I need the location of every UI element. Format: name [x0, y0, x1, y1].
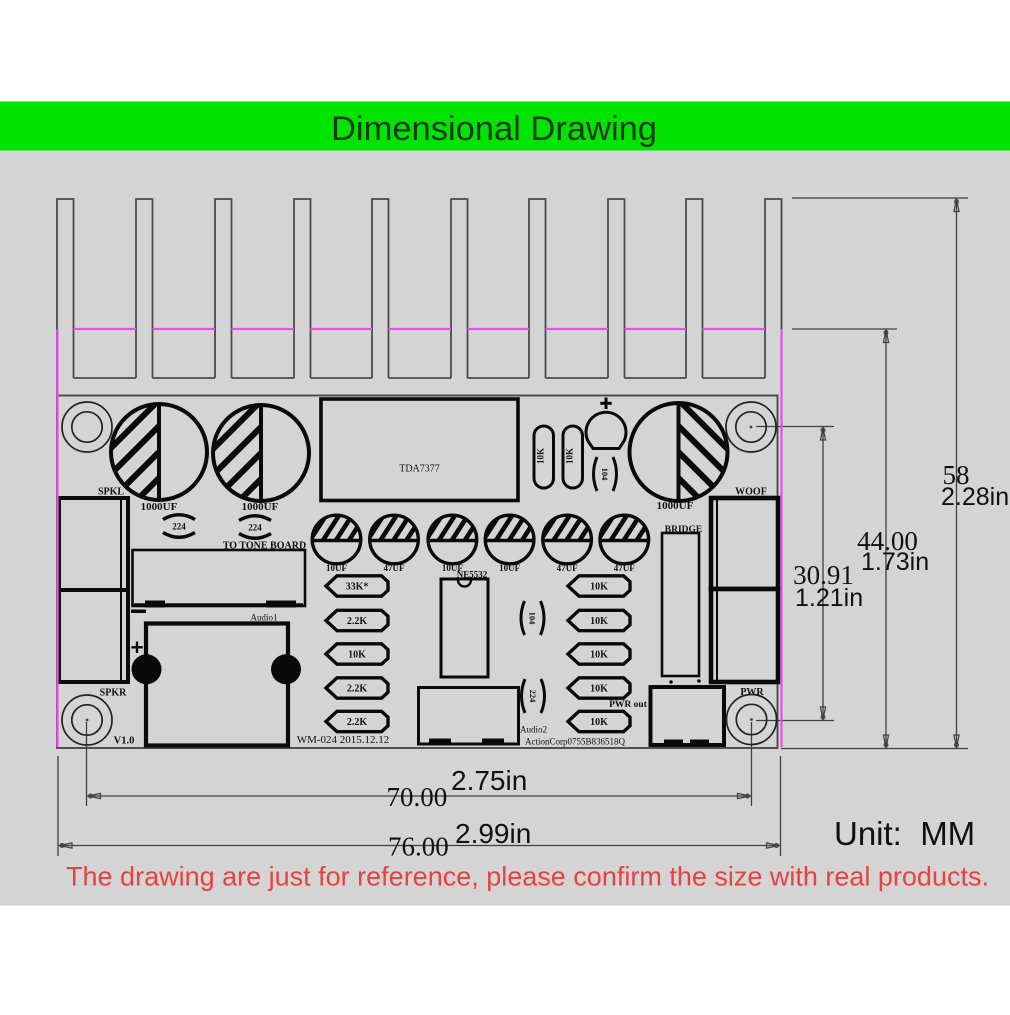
- svg-text:1.21in: 1.21in: [795, 584, 863, 612]
- svg-text:10K: 10K: [565, 448, 575, 464]
- svg-text:10K: 10K: [590, 717, 608, 728]
- svg-text:10UF: 10UF: [499, 563, 520, 573]
- svg-text:76.00: 76.00: [388, 832, 449, 862]
- svg-text:70.00: 70.00: [387, 782, 448, 812]
- svg-text:TO TONE BOARD: TO TONE BOARD: [223, 541, 306, 552]
- svg-text:2.2K: 2.2K: [347, 717, 368, 728]
- svg-text:10K: 10K: [536, 448, 546, 464]
- svg-text:WOOF: WOOF: [735, 487, 767, 498]
- svg-text:NE5532: NE5532: [457, 570, 488, 580]
- svg-text:1000UF: 1000UF: [141, 501, 178, 513]
- svg-text:1000UF: 1000UF: [657, 500, 694, 512]
- svg-text:224: 224: [528, 690, 538, 704]
- svg-text:ActionCorp0755B836518Q: ActionCorp0755B836518Q: [525, 737, 625, 747]
- svg-text:2.99in: 2.99in: [455, 818, 531, 849]
- svg-text:PWR: PWR: [740, 687, 764, 698]
- svg-text:10K: 10K: [590, 582, 608, 593]
- svg-text:104: 104: [528, 612, 538, 626]
- svg-text:WM-024 2015.12.12: WM-024 2015.12.12: [297, 734, 390, 746]
- svg-text:47UF: 47UF: [384, 563, 405, 573]
- svg-text:2.28in: 2.28in: [941, 483, 1009, 511]
- svg-text:V1.0: V1.0: [114, 736, 135, 747]
- svg-text:47UF: 47UF: [557, 563, 578, 573]
- svg-text:Unit: MM: Unit: MM: [834, 815, 975, 852]
- svg-text:1000UF: 1000UF: [242, 501, 279, 513]
- svg-text:SPKL: SPKL: [98, 487, 124, 498]
- svg-text:2.2K: 2.2K: [347, 616, 368, 627]
- svg-text:10K: 10K: [590, 616, 608, 627]
- svg-text:2.2K: 2.2K: [347, 684, 368, 695]
- svg-text:2.75in: 2.75in: [451, 765, 527, 796]
- svg-text:SPKR: SPKR: [100, 688, 127, 699]
- svg-text:10K: 10K: [590, 684, 608, 695]
- svg-text:10UF: 10UF: [326, 563, 347, 573]
- svg-text:33K*: 33K*: [346, 582, 369, 593]
- svg-text:224: 224: [248, 523, 262, 533]
- svg-text:10K: 10K: [590, 650, 608, 661]
- svg-text:104: 104: [600, 468, 610, 482]
- svg-text:BRIDGE: BRIDGE: [665, 525, 702, 535]
- svg-text:47UF: 47UF: [614, 563, 635, 573]
- svg-text:TDA7377: TDA7377: [399, 464, 440, 475]
- svg-text:10K: 10K: [348, 650, 366, 661]
- svg-text:1.73in: 1.73in: [861, 548, 929, 576]
- svg-text:The drawing are just for refer: The drawing are just for reference, plea…: [66, 862, 989, 892]
- svg-text:224: 224: [172, 522, 186, 532]
- svg-text:Audio2: Audio2: [520, 725, 547, 735]
- svg-text:Audio1: Audio1: [251, 613, 278, 623]
- svg-text:Dimensional Drawing: Dimensional Drawing: [331, 110, 657, 148]
- svg-text:PWR out: PWR out: [609, 700, 648, 710]
